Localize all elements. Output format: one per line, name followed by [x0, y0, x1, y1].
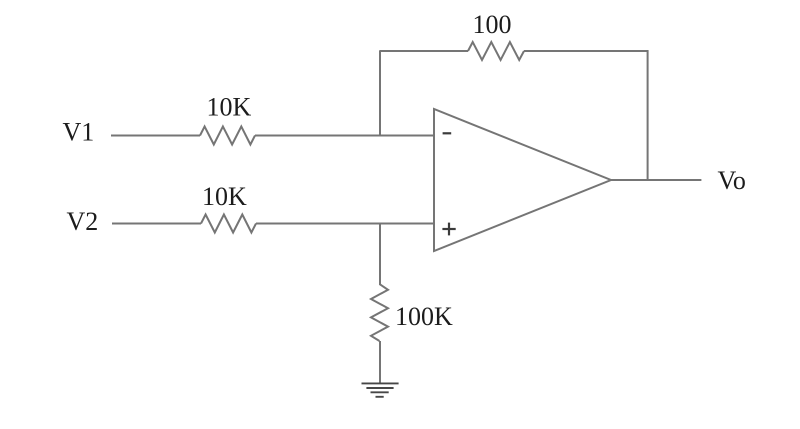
op-amp U1 [434, 109, 611, 251]
svg-text:Vo: Vo [718, 166, 746, 195]
wire feedback top right [524, 50, 649, 52]
wire op-amp output to Vo [611, 179, 701, 181]
op-amp non-inverting pin label (+) [442, 223, 455, 236]
wire resistor 10K to op-amp inverting input [255, 135, 434, 137]
wire non-inverting node down to resistor 100K [379, 224, 381, 286]
resistor 10K (V1 input) [200, 127, 255, 145]
svg-text:100: 100 [473, 10, 512, 39]
svg-text:100K: 100K [395, 302, 453, 331]
wire feedback right vertical [647, 50, 649, 180]
wire resistor 100K to ground [379, 341, 381, 383]
wire resistor 10K to op-amp non-inverting input [256, 223, 434, 225]
op-amp inverting pin label (-) [443, 132, 452, 134]
wire V2 to resistor 10K (bottom input) [112, 223, 201, 225]
resistor 100K (to ground) [371, 284, 388, 341]
svg-text:V2: V2 [67, 207, 99, 236]
resistor 10K (V2 input) [201, 215, 256, 233]
svg-text:10K: 10K [202, 182, 247, 211]
wire feedback top left [379, 50, 468, 52]
resistor 100 (feedback) [468, 42, 524, 60]
wire feedback left vertical (junction at inverting input) [379, 51, 381, 136]
wire V1 to resistor 10K (top input) [111, 135, 200, 137]
svg-text:10K: 10K [207, 93, 252, 122]
svg-text:V1: V1 [63, 118, 95, 147]
ground [362, 383, 399, 396]
